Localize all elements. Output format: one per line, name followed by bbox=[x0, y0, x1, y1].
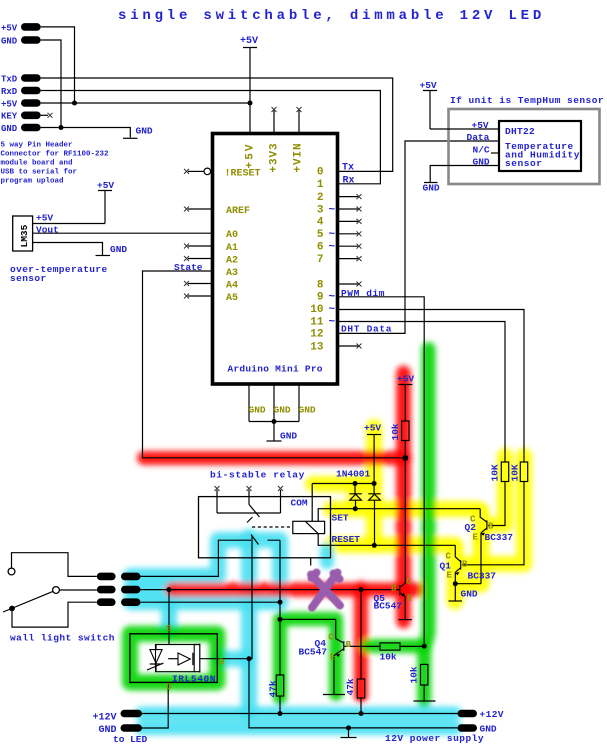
wire MOSFET gate from middle row bbox=[168, 590, 170, 645]
svg-text:to LED: to LED bbox=[113, 734, 148, 745]
svg-text:USB to serial for: USB to serial for bbox=[1, 169, 78, 177]
wire DHT GND pin to ground bbox=[430, 166, 499, 183]
x mark relay pin 3 bbox=[278, 486, 283, 491]
svg-text:+5V: +5V bbox=[397, 374, 414, 385]
MOSFET driver triangle bbox=[178, 653, 190, 665]
x mark +VIN bbox=[297, 107, 302, 112]
pin stub D8 bbox=[339, 283, 359, 285]
connector pill +12V left bbox=[121, 710, 143, 718]
wire 47k-1 column from relay contact to +12V rail bbox=[279, 602, 281, 713]
yellow highlight SET line bbox=[331, 501, 477, 517]
junction diode D1 bottom SET bbox=[353, 506, 358, 511]
svg-text:10k: 10k bbox=[409, 666, 420, 683]
svg-text:IRL540N: IRL540N bbox=[172, 673, 216, 684]
pin stub +VIN bbox=[298, 111, 300, 133]
green highlight 10k base resistor row bbox=[368, 639, 424, 653]
svg-text:E: E bbox=[330, 653, 336, 663]
svg-text:~: ~ bbox=[329, 292, 336, 304]
svg-text:47k: 47k bbox=[345, 678, 356, 695]
svg-text:C: C bbox=[470, 515, 476, 525]
wire Q4 collector branch bbox=[280, 619, 336, 638]
svg-text:GND: GND bbox=[136, 126, 153, 137]
transistor Q4 BC547 bbox=[336, 639, 344, 654]
connector pill RxD bbox=[21, 87, 41, 95]
green highlight 47k-1 and Q4 collector loop bbox=[280, 619, 336, 698]
junction Q5 base / 47k-2 bbox=[359, 587, 364, 592]
svg-text:B: B bbox=[462, 560, 468, 570]
svg-text:+5V: +5V bbox=[36, 213, 53, 224]
connector pill GND (header top) bbox=[21, 36, 41, 44]
svg-text:7: 7 bbox=[317, 254, 324, 266]
svg-text:KEY: KEY bbox=[1, 112, 18, 122]
resistor 47k-2 body bbox=[357, 679, 364, 698]
wire LM35 GND pin to ground bbox=[33, 243, 103, 256]
svg-text:RESET: RESET bbox=[332, 534, 361, 545]
x mark AREF bbox=[184, 207, 189, 212]
svg-text:B: B bbox=[346, 640, 352, 650]
svg-text:wall light switch: wall light switch bbox=[10, 633, 115, 644]
svg-text:GND: GND bbox=[110, 244, 127, 255]
svg-text:TxD: TxD bbox=[1, 74, 18, 84]
junction diode D2 bottom RESET bbox=[372, 543, 377, 548]
svg-text:GND: GND bbox=[473, 157, 490, 168]
+5V power symbol (pull-up) bbox=[398, 385, 412, 422]
svg-text:5 way Pin Header: 5 way Pin Header bbox=[1, 142, 73, 150]
diode D2 triangle bbox=[369, 494, 381, 500]
svg-text:Vout: Vout bbox=[36, 225, 59, 236]
junction middle row / MOSFET gate bbox=[167, 587, 172, 592]
svg-text:10k: 10k bbox=[380, 652, 397, 663]
svg-text:3: 3 bbox=[317, 204, 324, 216]
transistor Q1 BC337 bbox=[455, 545, 460, 572]
diode D2 1N4001 bbox=[368, 435, 380, 546]
junction +5V row/Arduino +5V bbox=[248, 101, 253, 106]
svg-text:+5V: +5V bbox=[240, 36, 258, 47]
wire GND rail to ground bar bbox=[348, 728, 350, 737]
x mark !RESET bbox=[184, 169, 189, 174]
cyan highlight +12V rail bbox=[142, 707, 455, 721]
pin stub +3V3 bbox=[273, 111, 275, 133]
svg-text:BC547: BC547 bbox=[374, 601, 403, 612]
x mark D7 bbox=[357, 256, 362, 261]
junction GND pill/GND row bbox=[59, 125, 64, 130]
wire Q1 base from 10K-2 bbox=[462, 482, 524, 565]
wire +5V row bbox=[41, 102, 250, 104]
svg-text:10K: 10K bbox=[490, 464, 501, 481]
Q4 emitter arrow bbox=[336, 654, 341, 657]
wire wall switch top to pills bbox=[12, 553, 97, 577]
wire GND row to ground bbox=[41, 128, 131, 138]
relay mechanical link (dashed) bbox=[252, 526, 293, 528]
pin stub D3 bbox=[339, 208, 359, 210]
svg-text:10: 10 bbox=[310, 304, 323, 316]
svg-text:~: ~ bbox=[329, 242, 336, 254]
wire wall switch middle to pills bbox=[59, 589, 96, 591]
ground bar (Q1) bbox=[449, 600, 463, 602]
pin stub !RESET bbox=[188, 170, 204, 172]
junction diode D2 top bbox=[372, 481, 377, 486]
svg-text:1N4001: 1N4001 bbox=[336, 469, 371, 480]
svg-text:C: C bbox=[446, 552, 452, 562]
!RESET bubble bbox=[204, 168, 211, 175]
diode D1 1N4001 bbox=[349, 484, 361, 509]
svg-text:GND: GND bbox=[280, 431, 297, 442]
connector pill GND (header bottom) bbox=[21, 124, 41, 132]
resistor 10k-right body bbox=[421, 664, 428, 685]
pin stub D2 bbox=[339, 196, 359, 198]
wire DHT N/C stub bbox=[491, 152, 499, 154]
connector pill row3 left bbox=[97, 598, 116, 606]
relay coil bbox=[293, 521, 325, 533]
wire 47k-2 column bbox=[360, 590, 362, 714]
ground bar (DHT) bbox=[424, 182, 438, 184]
junction bottom row / 47k-1 column bbox=[278, 600, 283, 605]
x mark +3V3 bbox=[272, 107, 277, 112]
cyan highlight middle pill row to MOSFET gate bbox=[131, 590, 169, 632]
svg-text:DHT Data: DHT Data bbox=[341, 324, 392, 335]
relay COM wire bbox=[311, 484, 313, 522]
DHT22 sensor body bbox=[499, 121, 581, 171]
x mark D2 bbox=[357, 194, 362, 199]
yellow highlight diode D1 column bbox=[347, 484, 363, 509]
connector pill row2 left bbox=[97, 586, 116, 594]
svg-text:+5V: +5V bbox=[420, 80, 437, 91]
svg-text:GND: GND bbox=[1, 36, 18, 46]
ground bar (Q5) bbox=[399, 619, 412, 621]
wire 10k to PWM column bbox=[400, 645, 424, 647]
svg-text:S: S bbox=[166, 624, 172, 634]
wall switch pivot circle 2 bbox=[53, 587, 60, 594]
cyan highlight relay lower contact bracket bbox=[131, 540, 280, 602]
wire Arduino GND pins to ground bbox=[249, 386, 299, 441]
svg-text:bi-stable relay: bi-stable relay bbox=[210, 470, 305, 481]
svg-text:AREF: AREF bbox=[226, 206, 250, 217]
svg-text:GND: GND bbox=[423, 183, 440, 194]
wire bottom row pills to relay contact bbox=[140, 601, 280, 603]
relay upper switch blade bbox=[247, 505, 260, 523]
svg-text:47k: 47k bbox=[268, 680, 279, 697]
wire KEY stub bbox=[41, 114, 48, 116]
wire 10k-right to ground bar bbox=[423, 685, 425, 701]
svg-text:~: ~ bbox=[329, 229, 336, 241]
connector pill GND left bbox=[121, 724, 143, 732]
svg-text:sensor: sensor bbox=[10, 273, 47, 284]
MOSFET driver input wire bbox=[168, 658, 178, 660]
relay pin stub 1 bbox=[216, 490, 218, 497]
resistor 10K-2 body bbox=[520, 462, 527, 482]
svg-text:A1: A1 bbox=[226, 243, 238, 254]
Q5 emitter arrow bbox=[401, 593, 405, 597]
yellow highlight transistor Q2 bbox=[473, 511, 490, 537]
junction Q1/Q2 emitters bbox=[453, 581, 458, 586]
junction 47k-1/+12V rail bbox=[278, 711, 283, 716]
connector pill KEY bbox=[21, 112, 41, 120]
transistor Q5 BC547 bbox=[400, 583, 406, 596]
svg-text:RxD: RxD bbox=[1, 87, 18, 97]
wire RxD row to Arduino pin1 bbox=[41, 91, 381, 184]
junction +5V pill/+5V row bbox=[72, 101, 77, 106]
svg-text:DHT22: DHT22 bbox=[505, 126, 535, 137]
junction PWM column / 10k bbox=[422, 644, 427, 649]
wire COM to diode tops bbox=[312, 483, 374, 485]
connector pill TxD bbox=[21, 74, 41, 82]
svg-text:~: ~ bbox=[329, 316, 336, 328]
red highlight Q5 base wire row bbox=[172, 583, 417, 597]
svg-text:Rx: Rx bbox=[343, 175, 355, 186]
wire LM35 +5V pin bbox=[33, 223, 105, 225]
svg-text:12: 12 bbox=[310, 329, 323, 341]
x mark D6 bbox=[357, 244, 362, 249]
svg-text:A0: A0 bbox=[226, 230, 238, 241]
svg-text:COM: COM bbox=[291, 497, 308, 508]
junction diode D1 top bbox=[353, 481, 358, 486]
svg-text:BC547: BC547 bbox=[299, 647, 328, 658]
x mark A4 bbox=[184, 281, 189, 286]
junction drain/pole wire bbox=[247, 656, 252, 661]
svg-text:sensor: sensor bbox=[505, 158, 543, 169]
wire Q2 base from 10K-1 bbox=[488, 482, 505, 526]
ground bar (12V supply) bbox=[341, 737, 357, 739]
purple X crossing-out mark bbox=[311, 573, 340, 608]
svg-text:E: E bbox=[447, 571, 453, 581]
svg-text:B: B bbox=[391, 583, 397, 593]
svg-text:+5V: +5V bbox=[364, 423, 381, 434]
svg-text:2: 2 bbox=[317, 192, 324, 204]
svg-text:Connector for RF1100-232: Connector for RF1100-232 bbox=[1, 151, 110, 159]
relay pin stub 2 bbox=[248, 490, 250, 497]
transistor Q2 BC337 bbox=[480, 509, 487, 533]
svg-text:A3: A3 bbox=[226, 268, 238, 279]
wire LM35 Vout to Arduino A0 bbox=[33, 232, 211, 234]
yellow highlight diode D2 to RESET bbox=[366, 484, 382, 545]
pin stub AREF bbox=[188, 208, 211, 210]
svg-text:A2: A2 bbox=[226, 255, 238, 266]
x mark A5 bbox=[184, 294, 189, 299]
wire 10k pull-up to State junction and Q5 collector bbox=[404, 441, 406, 584]
svg-text:Data: Data bbox=[467, 132, 490, 143]
svg-text:program upload: program upload bbox=[1, 178, 64, 186]
relay upper contact rail bbox=[217, 497, 281, 513]
ground bar (Q4) bbox=[323, 694, 345, 696]
yellow highlight COM-to-diodes wire bbox=[313, 476, 374, 492]
svg-text:+12V: +12V bbox=[480, 709, 504, 720]
wire TxD row to Arduino pin0 bbox=[41, 78, 393, 171]
green highlight PWM dim wire down through 10k to ground bar bbox=[424, 349, 428, 700]
wire GND pill to GND row bbox=[41, 40, 61, 128]
diode D1 triangle bbox=[350, 494, 362, 500]
svg-text:10K: 10K bbox=[510, 464, 521, 481]
wire Q5 emitter to ground bbox=[404, 597, 406, 620]
x mark D8 bbox=[357, 282, 362, 287]
wire MOSFET drain right bbox=[200, 658, 249, 660]
svg-text:SET: SET bbox=[332, 512, 349, 523]
ground bar (LM35) bbox=[96, 255, 111, 257]
svg-text:!RESET: !RESET bbox=[225, 168, 261, 179]
wire Q1 emitter to ground with Q2 emitter bbox=[455, 572, 481, 600]
pin stub A2 bbox=[188, 258, 211, 260]
svg-text:6: 6 bbox=[317, 242, 324, 254]
pin stub A4 bbox=[188, 283, 211, 285]
junction 47k-1 / Q4 collector branch bbox=[278, 617, 283, 622]
svg-text:D: D bbox=[166, 682, 172, 692]
relay pole wire down to +12V rail bbox=[249, 537, 458, 728]
svg-text:BC337: BC337 bbox=[485, 532, 514, 543]
svg-text:Arduino Mini Pro: Arduino Mini Pro bbox=[228, 364, 323, 375]
svg-text:~: ~ bbox=[329, 304, 336, 316]
wire MOSFET drain bottom to LED GND pill bbox=[140, 682, 168, 728]
wire SET from coil to Q2 collector bbox=[318, 509, 480, 522]
svg-text:GND: GND bbox=[461, 589, 478, 600]
svg-text:A5: A5 bbox=[226, 293, 238, 304]
HIGHLIGHTER LAYER bbox=[130, 349, 524, 728]
relay lower right contact bbox=[268, 540, 281, 602]
relay COM bottom stub bbox=[310, 558, 312, 566]
wire top row pills to relay contact bbox=[140, 575, 218, 577]
pin stub D4 bbox=[339, 220, 359, 222]
junction 47k-2/+12V rail bbox=[359, 711, 364, 716]
Arduino Mini Pro body U1 bbox=[213, 134, 338, 385]
svg-text:State: State bbox=[174, 262, 203, 273]
pin stub D13 bbox=[339, 345, 359, 347]
svg-text:+5V: +5V bbox=[472, 120, 489, 131]
svg-text:13: 13 bbox=[310, 341, 324, 353]
junction Arduino GND bbox=[272, 419, 277, 424]
wire Q4 emitter to ground bar bbox=[334, 654, 336, 694]
svg-text:9: 9 bbox=[317, 292, 324, 304]
red highlight +5V pull-up down to Q5 bbox=[396, 373, 411, 621]
x mark relay pin 2 bbox=[247, 486, 252, 491]
wire PWM pin9 down to 10k row (green path) bbox=[339, 297, 424, 646]
green highlight ring around IRL540N bbox=[130, 634, 217, 683]
yellow highlight transistor Q1 and emitter wires bbox=[455, 537, 481, 601]
svg-text:C: C bbox=[406, 577, 412, 587]
svg-text:+VIN: +VIN bbox=[292, 142, 304, 172]
pin stub D6 bbox=[339, 245, 359, 247]
svg-text:4: 4 bbox=[317, 217, 324, 229]
resistor 47k-1 body bbox=[276, 675, 283, 696]
+5V power symbol for LM35 bbox=[98, 191, 112, 224]
svg-text:module board and: module board and bbox=[1, 160, 73, 168]
+12V rail bbox=[140, 713, 459, 715]
connector pill GND right bbox=[458, 724, 478, 732]
wire pin12 DHT Data bbox=[339, 141, 499, 333]
wall switch contact dot bbox=[9, 606, 15, 612]
wire pin10 to 10K-2 resistor bbox=[339, 310, 524, 463]
cyan highlight MOSFET drain wire bbox=[218, 651, 249, 667]
ground bar (10k-right) bbox=[414, 700, 436, 702]
connector pill +5V (header top) bbox=[21, 23, 41, 31]
TempHum outer gray box bbox=[449, 109, 600, 184]
relay lower left contact bbox=[218, 540, 251, 577]
svg-text:GND: GND bbox=[249, 404, 266, 415]
LM35 body bbox=[13, 216, 33, 251]
connector pill row1 right bbox=[121, 573, 141, 581]
svg-text:C: C bbox=[328, 633, 334, 643]
svg-text:+5V: +5V bbox=[1, 23, 18, 33]
svg-text:5: 5 bbox=[317, 229, 324, 241]
svg-text:single switchable, dimmable 12: single switchable, dimmable 12V LED bbox=[118, 8, 545, 24]
Q2 emitter arrow bbox=[481, 533, 486, 536]
wire DHT +5V pin bbox=[430, 128, 499, 130]
yellow highlight over +5V and diode D2 column bbox=[366, 427, 382, 484]
svg-text:LM35: LM35 bbox=[19, 224, 30, 247]
svg-text:B: B bbox=[488, 521, 494, 531]
x mark A1 bbox=[184, 244, 189, 249]
relay K1 body bbox=[199, 497, 331, 558]
cyan highlight blob at relay box corner bbox=[320, 550, 334, 562]
relay pin stub 3 bbox=[280, 490, 282, 497]
x mark D3 bbox=[357, 207, 362, 212]
svg-text:BC337: BC337 bbox=[468, 570, 497, 581]
wire wall switch bottom to pills bbox=[12, 602, 97, 627]
svg-text:E: E bbox=[473, 533, 479, 543]
ground bar (header) bbox=[123, 137, 138, 139]
svg-text:1: 1 bbox=[317, 179, 324, 191]
MOSFET channel stubs bbox=[194, 645, 200, 672]
yellow highlight 10K-1 resistor to Q2 base bbox=[489, 456, 505, 525]
pin stub D7 bbox=[339, 258, 359, 260]
cyan highlight GND rail bbox=[142, 721, 455, 735]
connector pill row2 right bbox=[121, 586, 141, 594]
connector pill row3 right bbox=[121, 598, 141, 606]
svg-text:GND: GND bbox=[1, 124, 18, 134]
pin stub D5 bbox=[339, 233, 359, 235]
x mark D4 bbox=[357, 219, 362, 224]
x mark D13 bbox=[357, 344, 362, 349]
svg-text:+5V: +5V bbox=[97, 180, 114, 191]
svg-text:If unit is TempHum sensor: If unit is TempHum sensor bbox=[450, 95, 604, 106]
+5V power symbol (diodes) bbox=[367, 434, 381, 436]
wire +5V pill to +5V row bbox=[41, 27, 75, 103]
wire Q5 base row from wall switch bbox=[140, 589, 400, 591]
relay lower switch blade bbox=[251, 535, 259, 545]
svg-text:+5V: +5V bbox=[244, 142, 256, 168]
relay coil diagonal bbox=[306, 522, 318, 533]
svg-text:11: 11 bbox=[310, 316, 324, 328]
svg-text:8: 8 bbox=[317, 279, 324, 291]
svg-text:+12V: +12V bbox=[93, 713, 117, 724]
MOSFET zener triangle bbox=[150, 650, 162, 664]
connector pill +5V bbox=[21, 99, 41, 107]
MOSFET zener diode bbox=[147, 645, 164, 672]
MOSFET IRL540N body bbox=[130, 634, 217, 683]
wall switch blade bbox=[3, 592, 53, 612]
x mark KEY bbox=[48, 113, 53, 118]
svg-text:GND: GND bbox=[274, 404, 291, 415]
svg-text:12V power supply: 12V power supply bbox=[385, 733, 484, 744]
wire Q2 emitter down bbox=[480, 533, 482, 584]
resistor 10k base body (horizontal) bbox=[380, 643, 400, 650]
svg-text:PWM dim: PWM dim bbox=[341, 288, 385, 299]
svg-text:GND: GND bbox=[299, 404, 316, 415]
resistor 10K-1 body bbox=[501, 462, 508, 482]
pin stub A5 bbox=[188, 295, 211, 297]
wire Q4 base to 10k bbox=[344, 645, 380, 647]
svg-text:10k: 10k bbox=[390, 423, 401, 440]
wire RESET from coil to Q1 collector bbox=[318, 534, 455, 546]
yellow highlight 10K-2 resistor to Q1 base bbox=[462, 456, 524, 564]
svg-text:D: D bbox=[219, 657, 225, 667]
svg-text:N/C: N/C bbox=[473, 145, 490, 156]
svg-text:~: ~ bbox=[329, 204, 336, 216]
resistor 10k pull-up body bbox=[402, 421, 409, 441]
svg-text:Tx: Tx bbox=[342, 163, 354, 174]
MOSFET inner frame bbox=[156, 645, 195, 672]
x mark A2 bbox=[184, 256, 189, 261]
pin stub A1 bbox=[188, 245, 211, 247]
wire State from A3 down and across (under red) bbox=[143, 271, 406, 458]
Q1 emitter arrow bbox=[455, 572, 460, 575]
